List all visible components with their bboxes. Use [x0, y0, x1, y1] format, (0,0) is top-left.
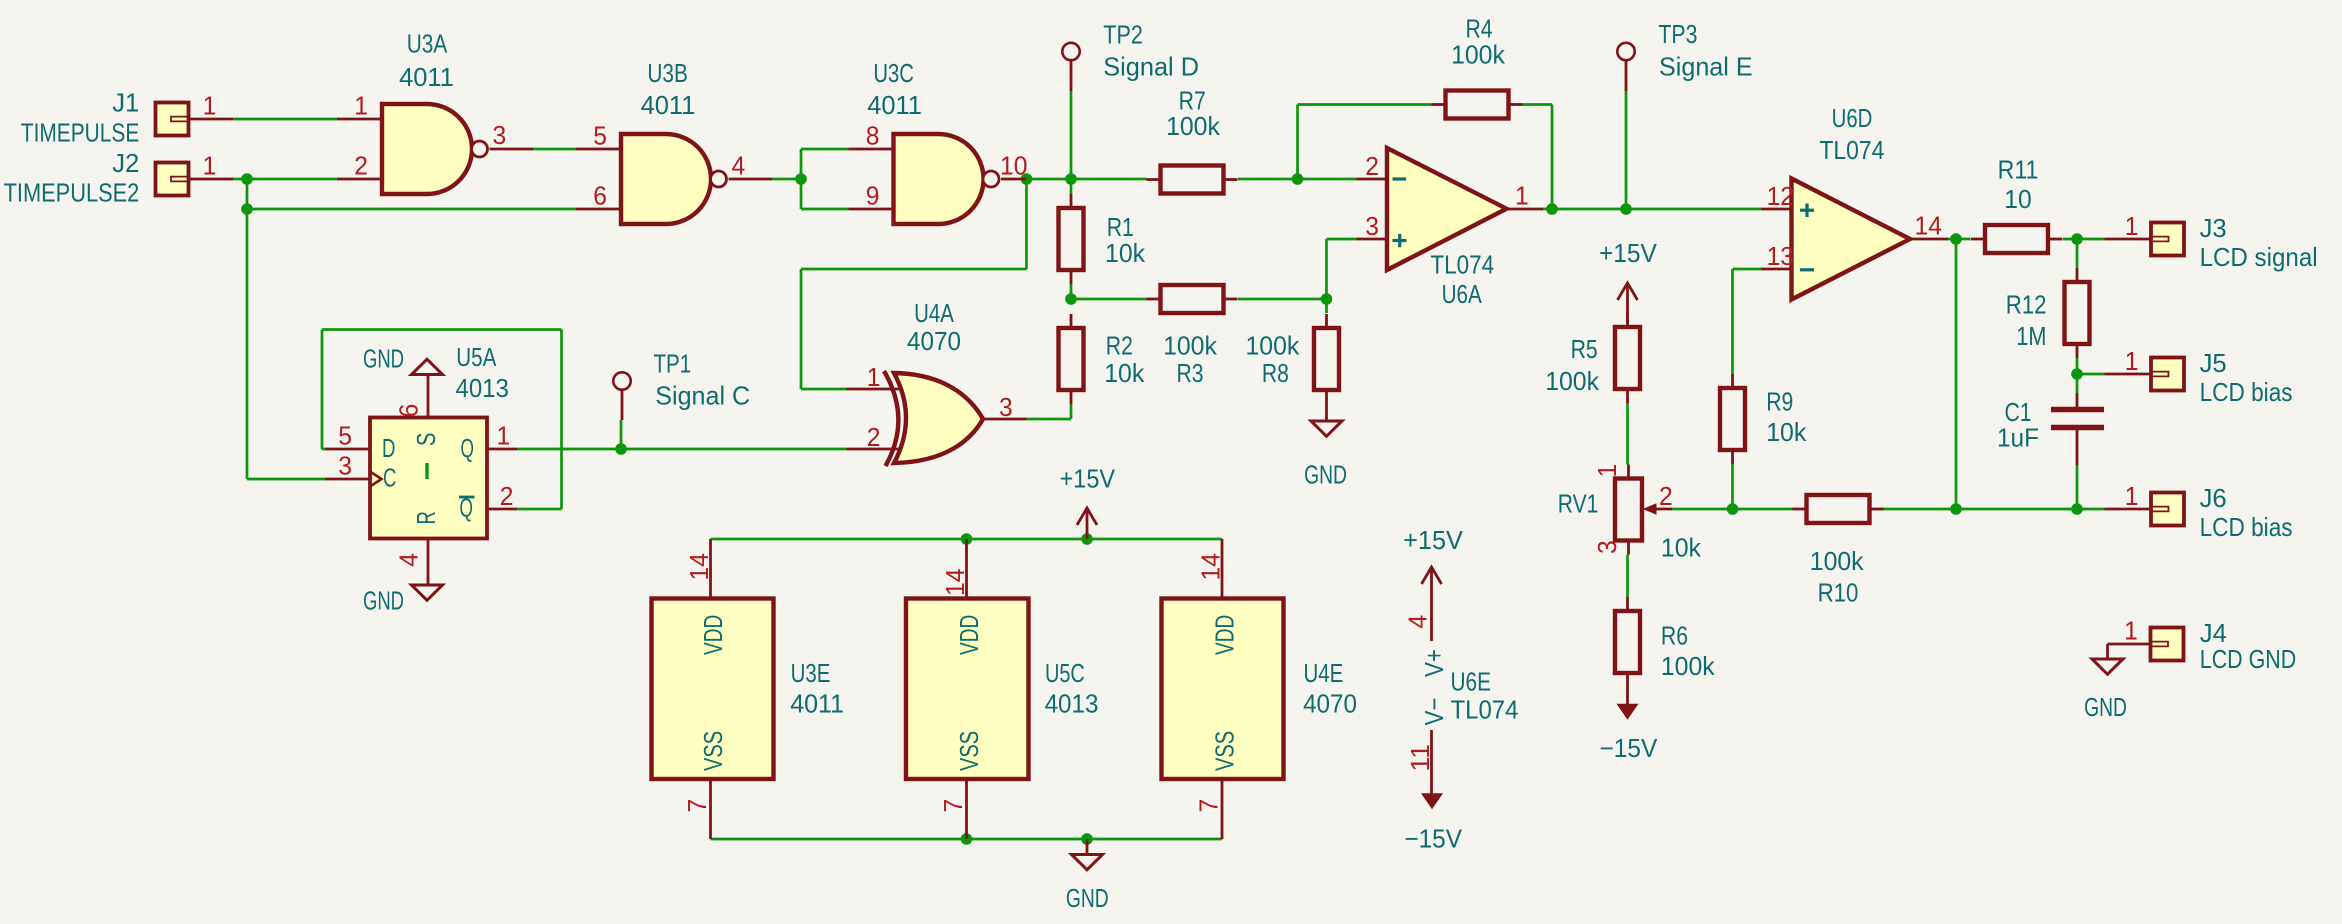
wire R3 row: [1071, 298, 1147, 301]
svg-text:100k: 100k: [1810, 546, 1865, 576]
svg-text:1: 1: [497, 421, 511, 451]
svg-text:100k: 100k: [1451, 39, 1506, 69]
svg-text:C: C: [383, 462, 396, 492]
resistor R4: [1446, 91, 1509, 119]
svg-text:1: 1: [203, 91, 217, 121]
svg-text:VDD: VDD: [698, 615, 728, 655]
svg-text:100k: 100k: [1661, 651, 1716, 681]
resistor R6: [1615, 611, 1640, 673]
wire U6D out to R11/J3: [1948, 238, 1971, 241]
svg-text:1: 1: [1515, 181, 1529, 211]
svg-text:Signal E: Signal E: [1659, 52, 1753, 82]
svg-text:D: D: [382, 433, 395, 463]
svg-text:GND: GND: [363, 343, 404, 373]
power unit U6E: [1430, 567, 1433, 641]
power +15V rail symbol: [1086, 508, 1089, 539]
svg-text:14: 14: [940, 569, 970, 596]
svg-text:7: 7: [682, 799, 712, 813]
svg-text:U6D: U6D: [1832, 103, 1873, 133]
svg-text:TIMEPULSE2: TIMEPULSE2: [4, 178, 140, 208]
svg-text:+15V: +15V: [1403, 525, 1463, 555]
svg-text:U3C: U3C: [873, 58, 914, 88]
svg-text:10k: 10k: [1105, 238, 1146, 268]
wire net: [233, 118, 337, 121]
svg-text:10k: 10k: [1766, 417, 1807, 447]
wire U5A Q to XOR in2: [517, 448, 847, 451]
svg-text:LCD bias: LCD bias: [2200, 377, 2293, 407]
svg-text:4011: 4011: [867, 90, 922, 120]
svg-text:U4A: U4A: [914, 298, 954, 328]
svg-text:4013: 4013: [1045, 688, 1099, 718]
svg-text:V−: V−: [1419, 698, 1449, 726]
resistor R3: [1161, 285, 1224, 313]
svg-text:R: R: [411, 511, 441, 524]
xor gate U4A: [847, 388, 901, 391]
wire U3A out to U3B: [533, 148, 576, 151]
flip-flop U5A: [370, 418, 487, 539]
svg-text:J2: J2: [112, 148, 139, 178]
resistor R11: [1985, 225, 2048, 253]
svg-text:7: 7: [1194, 799, 1224, 813]
svg-text:R5: R5: [1571, 334, 1598, 364]
svg-text:100k: 100k: [1246, 331, 1301, 361]
svg-text:VSS: VSS: [698, 731, 728, 771]
svg-text:2: 2: [1365, 151, 1379, 181]
svg-text:R3: R3: [1176, 358, 1203, 388]
svg-text:4070: 4070: [907, 326, 961, 356]
svg-text:TL074: TL074: [1451, 695, 1519, 725]
svg-text:14: 14: [684, 553, 714, 580]
svg-text:U5C: U5C: [1045, 658, 1085, 688]
svg-text:1: 1: [203, 151, 217, 181]
svg-text:TIMEPULSE: TIMEPULSE: [21, 117, 140, 147]
svg-text:5: 5: [593, 121, 607, 151]
svg-text:100k: 100k: [1545, 366, 1600, 396]
node J2 branch: [241, 173, 253, 185]
ground U5A reset pin: [412, 585, 443, 600]
wire U3B out: [772, 178, 801, 181]
svg-text:1: 1: [2124, 616, 2138, 646]
resistor R5: [1615, 327, 1640, 389]
wire power rail GND: [711, 838, 1223, 841]
svg-text:4070: 4070: [1303, 688, 1357, 718]
svg-text:−15V: −15V: [1600, 733, 1658, 763]
svg-text:3: 3: [999, 392, 1013, 422]
svg-text:LCD signal: LCD signal: [2200, 242, 2318, 272]
svg-text:RV1: RV1: [1558, 488, 1599, 518]
svg-text:2: 2: [867, 422, 881, 452]
op-amp U6D: [1762, 208, 1792, 211]
wire XOR out to R2: [1027, 418, 1072, 421]
connector J1: [156, 103, 189, 136]
svg-text:TP3: TP3: [1658, 19, 1697, 49]
svg-text:U3A: U3A: [407, 29, 448, 59]
wire U6A out: [1543, 208, 1762, 211]
svg-text:100k: 100k: [1166, 111, 1221, 141]
wire U6D pin13 to R9: [1733, 268, 1762, 271]
resistor R1: [1059, 208, 1084, 270]
svg-text:TP2: TP2: [1103, 20, 1143, 50]
nand gate U3C: [849, 148, 894, 151]
svg-text:R12: R12: [2006, 290, 2047, 320]
svg-text:14: 14: [1915, 211, 1942, 241]
IC power block U5C: [965, 539, 968, 599]
svg-text:R9: R9: [1766, 387, 1793, 417]
resistor R7: [1161, 166, 1224, 194]
svg-text:1: 1: [2125, 211, 2139, 241]
svg-text:4013: 4013: [456, 373, 509, 403]
svg-text:Q: Q: [461, 433, 474, 463]
op-amp U6A: [1357, 178, 1387, 181]
svg-text:LCD GND: LCD GND: [2200, 644, 2296, 674]
connector J4: [2151, 628, 2184, 661]
wire power rail +15V: [711, 538, 1223, 541]
svg-text:U4E: U4E: [1304, 658, 1344, 688]
svg-text:GND: GND: [1066, 883, 1109, 913]
svg-text:10: 10: [2004, 184, 2031, 214]
test point TP3: [1617, 43, 1634, 60]
test point TP1: [613, 372, 630, 389]
svg-text:R2: R2: [1106, 331, 1133, 361]
wire right column: [1955, 239, 1958, 509]
svg-text:9: 9: [866, 181, 880, 211]
test point TP2: [1062, 43, 1079, 60]
resistor R12: [2065, 282, 2090, 344]
svg-text:J6: J6: [2200, 483, 2227, 513]
svg-text:2: 2: [354, 151, 368, 181]
svg-text:R8: R8: [1262, 358, 1289, 388]
svg-text:U6A: U6A: [1442, 279, 1483, 309]
svg-text:4011: 4011: [399, 62, 454, 92]
svg-text:J3: J3: [2200, 213, 2227, 243]
svg-text:4011: 4011: [641, 90, 696, 120]
svg-text:TP1: TP1: [654, 349, 692, 379]
svg-text:10k: 10k: [1104, 358, 1145, 388]
wire feedback R4: [1296, 105, 1299, 180]
power +15V R5: [1626, 283, 1629, 327]
svg-text:4: 4: [1403, 615, 1433, 629]
nand gate U3B: [576, 148, 621, 151]
wire TP3 drop: [1625, 91, 1628, 209]
resistor R10: [1807, 495, 1870, 523]
svg-text:VSS: VSS: [954, 731, 984, 771]
svg-text:+15V: +15V: [1060, 464, 1116, 494]
svg-text:2: 2: [1659, 481, 1673, 511]
ground rail symbol: [1086, 839, 1089, 855]
svg-text:3: 3: [1592, 540, 1622, 554]
svg-text:14: 14: [1196, 553, 1226, 580]
svg-text:1: 1: [1592, 464, 1622, 478]
connector J3: [2151, 223, 2184, 256]
ground R8: [1325, 404, 1328, 421]
svg-text:Signal C: Signal C: [655, 380, 750, 410]
svg-text:4: 4: [394, 553, 424, 567]
ground J4: [2092, 659, 2123, 674]
svg-text:4011: 4011: [790, 688, 844, 718]
svg-text:S: S: [411, 433, 441, 446]
svg-text:LCD bias: LCD bias: [2200, 512, 2293, 542]
wire R1: [1070, 179, 1073, 194]
svg-text:VDD: VDD: [954, 615, 984, 655]
svg-text:11: 11: [1405, 744, 1435, 771]
svg-text:12: 12: [1767, 181, 1794, 211]
svg-text:1uF: 1uF: [1997, 423, 2039, 453]
svg-text:7: 7: [938, 799, 968, 813]
svg-text:10k: 10k: [1661, 532, 1702, 562]
svg-text:1: 1: [867, 362, 881, 392]
svg-text:U3B: U3B: [647, 58, 688, 88]
svg-text:R10: R10: [1818, 577, 1859, 607]
potentiometer RV1: [1615, 479, 1642, 541]
svg-text:3: 3: [493, 120, 507, 150]
IC power block U4E: [1221, 539, 1224, 599]
svg-text:+15V: +15V: [1599, 238, 1658, 268]
svg-text:3: 3: [338, 451, 352, 481]
svg-text:GND: GND: [363, 586, 404, 616]
svg-text:GND: GND: [1304, 459, 1347, 489]
svg-text:6: 6: [394, 404, 424, 418]
svg-text:J1: J1: [112, 88, 139, 118]
svg-text:TL074: TL074: [1819, 135, 1884, 165]
svg-text:U3E: U3E: [791, 658, 831, 688]
svg-text:J5: J5: [2200, 348, 2227, 378]
wire R5 RV1 R6 column: [1626, 403, 1629, 465]
svg-text:U5A: U5A: [456, 342, 497, 372]
svg-text:GND: GND: [2084, 692, 2127, 722]
wire U3C out: [1021, 173, 1033, 185]
svg-text:R11: R11: [1998, 155, 2039, 185]
wire U3C to XOR in1: [1025, 179, 1028, 269]
ground U5A set pin: [412, 359, 443, 374]
power -15V R6: [1626, 687, 1629, 704]
connector J5: [2151, 358, 2184, 391]
svg-text:2: 2: [500, 481, 514, 511]
svg-text:V+: V+: [1419, 649, 1449, 677]
svg-text:R6: R6: [1661, 621, 1688, 651]
connector J6: [2151, 493, 2184, 526]
nand gate U3A: [337, 118, 382, 121]
svg-text:U6E: U6E: [1451, 666, 1492, 696]
svg-text:4: 4: [732, 151, 746, 181]
svg-text:VDD: VDD: [1210, 615, 1240, 655]
svg-text:13: 13: [1767, 241, 1794, 271]
resistor R8: [1314, 328, 1339, 390]
connector J2: [156, 163, 189, 196]
resistor R2: [1059, 328, 1084, 390]
wire U5A feedback loop: [322, 328, 562, 331]
svg-text:3: 3: [1365, 211, 1379, 241]
svg-text:VSS: VSS: [1210, 731, 1240, 771]
wire R9 to wiper row: [1731, 463, 1734, 509]
svg-text:5: 5: [338, 421, 352, 451]
svg-text:Signal D: Signal D: [1103, 52, 1199, 82]
svg-text:−15V: −15V: [1404, 824, 1462, 854]
svg-text:TL074: TL074: [1430, 250, 1494, 280]
wire TP2 drop: [1070, 91, 1073, 179]
svg-text:100k: 100k: [1163, 331, 1218, 361]
svg-text:1: 1: [354, 91, 368, 121]
svg-text:1: 1: [2125, 481, 2139, 511]
svg-text:1M: 1M: [2016, 321, 2046, 351]
capacitor C1: [2051, 407, 2104, 413]
svg-text:1: 1: [2125, 346, 2139, 376]
svg-text:10: 10: [1000, 151, 1027, 181]
IC power block U3E: [709, 539, 712, 599]
svg-text:6: 6: [593, 181, 607, 211]
svg-text:8: 8: [866, 121, 880, 151]
resistor R9: [1720, 388, 1745, 450]
